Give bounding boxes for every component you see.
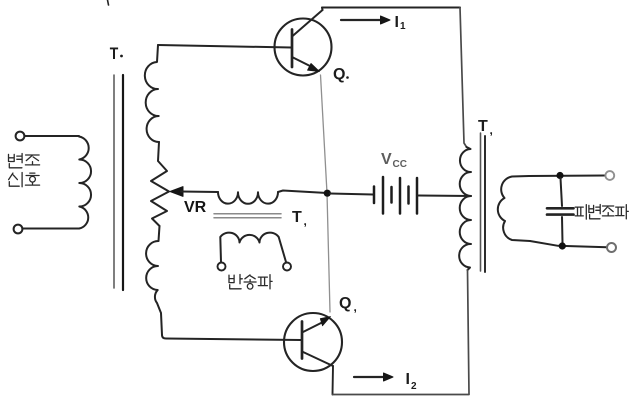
label T1 <box>110 45 123 64</box>
svg-text:,: , <box>490 123 493 137</box>
wire (top rail: Q1 collector to T3) <box>322 8 460 11</box>
wire (right rail down to T3 primary) <box>460 8 467 148</box>
transformer T2 upper winding <box>218 192 278 204</box>
label Q2 <box>339 295 357 314</box>
wire (bottom rail) <box>333 394 470 396</box>
svg-text:CC: CC <box>393 159 407 170</box>
transformer T1 secondary winding (lower) <box>146 226 162 335</box>
arrow I2 <box>354 376 384 378</box>
potentiometer VR (zigzag section) <box>151 142 169 226</box>
wire (bottom input lead) <box>23 228 80 230</box>
transistor Q2 <box>284 313 342 371</box>
wire (VR wiper to T2 winding) <box>181 191 218 194</box>
svg-text:Q: Q <box>333 66 345 83</box>
wire (T1 secondary to Q2 base) <box>162 335 301 340</box>
transformer T1 core <box>113 75 115 288</box>
wire (node to battery) <box>330 194 373 195</box>
label T2 <box>292 209 307 228</box>
label modulated output (피변조파) <box>575 205 628 220</box>
node (output bottom) <box>559 242 566 249</box>
svg-text:,: , <box>354 300 357 314</box>
wire (output bottom) <box>530 241 607 247</box>
wire (battery to T3 center tap) <box>419 195 472 198</box>
transistor Q1 <box>275 10 332 76</box>
capacitor <box>547 178 574 243</box>
transformer T3 primary winding <box>459 147 471 270</box>
svg-text:Q: Q <box>339 295 351 312</box>
label I2 <box>406 371 418 392</box>
label carrier (반송파) <box>229 275 272 290</box>
svg-text:,: , <box>304 214 307 228</box>
svg-text:T: T <box>110 45 119 64</box>
wire (T2 winding to emitter node) <box>278 191 327 194</box>
transformer T2 lower winding <box>220 233 286 262</box>
node (output top) <box>556 172 563 179</box>
svg-text:VR: VR <box>184 199 207 216</box>
wire (T1 secondary to Q1 base) <box>158 45 291 48</box>
svg-text:I: I <box>406 371 410 388</box>
wire (T3 primary bottom to bottom rail) <box>468 270 470 394</box>
output terminal top <box>605 171 614 180</box>
wire (stray tick top) <box>108 0 109 5</box>
label Vcc <box>381 151 407 170</box>
node (emitter junction) <box>324 190 331 197</box>
carrier terminal right <box>283 263 291 271</box>
transformer T1 secondary winding (upper) <box>145 45 159 142</box>
svg-text:T: T <box>478 118 488 135</box>
wire (emitter bus Q1-Q2, vertical) <box>321 75 331 312</box>
wire (Q2 collector to bottom rail) <box>332 366 335 395</box>
input terminal bottom <box>14 225 23 234</box>
label T3 <box>478 118 493 137</box>
output terminal bottom <box>607 243 616 252</box>
potentiometer VR wiper arrow <box>170 187 183 197</box>
svg-text:1: 1 <box>400 21 406 32</box>
transformer T1 primary winding <box>79 137 91 229</box>
label modulation signal (변조신호) <box>9 154 40 168</box>
label I1 <box>395 14 407 32</box>
wire (output top) <box>529 175 605 178</box>
transformer T2 core <box>214 213 281 215</box>
input terminal top <box>16 132 25 141</box>
carrier terminal left <box>218 263 226 271</box>
svg-text:T: T <box>292 209 302 226</box>
transformer T3 core <box>480 133 482 271</box>
svg-text:I: I <box>395 14 399 31</box>
svg-text:2: 2 <box>411 381 417 392</box>
wire (top input lead) <box>25 135 80 137</box>
arrow I1 <box>341 19 381 21</box>
battery Vcc <box>374 177 417 214</box>
svg-text:V: V <box>381 151 392 168</box>
transformer T3 secondary winding <box>498 176 530 241</box>
label Q1 <box>333 66 349 83</box>
